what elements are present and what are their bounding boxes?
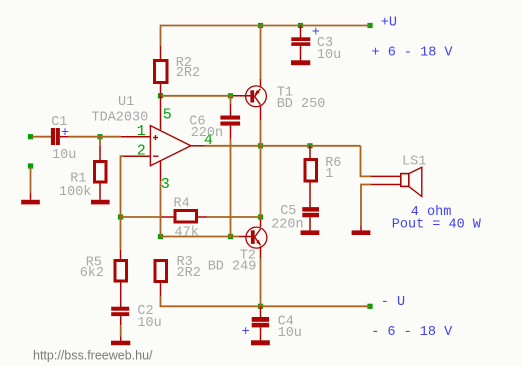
capacitor C3 [291, 25, 341, 62]
node +U endpoint [367, 23, 372, 28]
svg-text:100k: 100k [59, 185, 91, 200]
wire C2 to gnd [120, 316, 122, 341]
svg-text:U1: U1 [118, 95, 134, 110]
svg-text:220n: 220n [191, 126, 223, 141]
wire R6 to C5 [309, 182, 311, 207]
wire R4 right [198, 216, 261, 218]
wire R5 to C2 [120, 281, 122, 307]
wire output to speaker top [361, 146, 401, 177]
resistor R1 [59, 162, 106, 201]
node R1 junction [97, 134, 102, 139]
ground input [21, 200, 40, 205]
wire input gnd [30, 167, 32, 200]
pin 2 [124, 142, 150, 159]
svg-text:10u: 10u [52, 148, 76, 163]
svg-text:220n: 220n [271, 218, 303, 233]
wire C4 to gnd [260, 327, 262, 340]
node output/T1 junction [258, 143, 263, 148]
wire base net rail [161, 95, 251, 97]
wire R3 bottom to rail [161, 283, 371, 306]
svg-text:2: 2 [137, 142, 146, 159]
wire R1 bottom [99, 183, 101, 200]
blue label +6-18V [372, 45, 454, 60]
svg-text:- U: - U [381, 295, 405, 310]
resistor R4 [174, 196, 199, 240]
blue label 4 ohm [411, 205, 452, 220]
pin 5 [161, 96, 172, 130]
blue label -6-18V [371, 325, 453, 340]
capacitor C5 [271, 204, 319, 233]
capacitor C4 [242, 314, 302, 341]
wire T2 emitter down [260, 246, 262, 306]
wire pin3 column [160, 181, 162, 237]
node C6/47k junction [228, 234, 233, 239]
svg-text:2R2: 2R2 [176, 66, 200, 81]
blue label Pout [392, 218, 482, 233]
svg-text:+U: +U [381, 16, 397, 31]
svg-text:Pout = 40 W: Pout = 40 W [392, 218, 482, 233]
wire T1 collector down [260, 106, 262, 146]
blue label -U [381, 295, 405, 310]
wire pin2 feedback [121, 156, 125, 260]
svg-text:R1: R1 [70, 171, 86, 186]
wire T1 emitter to +U rail [260, 26, 262, 88]
svg-text:LS1: LS1 [402, 154, 426, 169]
wire C1 to pin1 [60, 136, 121, 138]
capacitor C2 [111, 304, 162, 331]
transistor T1 BD 250 [246, 85, 326, 112]
svg-text:BD 250: BD 250 [277, 97, 326, 112]
wire C5 to gnd [309, 217, 311, 230]
wire T1 base pin [240, 95, 251, 97]
url [33, 349, 153, 363]
ground C3 [291, 60, 310, 65]
ground R1 [91, 200, 110, 205]
node C4/-U junction [258, 304, 263, 309]
transistor T2 BD 249 [208, 227, 267, 274]
wire C4 top pin [260, 306, 262, 317]
svg-text:10u: 10u [317, 48, 341, 63]
wire top +U rail [161, 25, 371, 27]
svg-text:47k: 47k [175, 225, 199, 240]
svg-text:C5: C5 [280, 204, 296, 219]
capacitor C1 [51, 115, 76, 163]
svg-text:+: + [242, 325, 250, 340]
svg-text:1: 1 [325, 167, 333, 182]
node C6/base junction [228, 93, 233, 98]
wire input to C1 [32, 136, 51, 138]
wire C3 bottom to gnd [300, 46, 302, 61]
pin 1 [121, 123, 150, 140]
node T1/+U junction [258, 23, 263, 28]
svg-text:3: 3 [161, 176, 170, 193]
svg-text:10u: 10u [278, 326, 302, 341]
ground C5 [301, 230, 320, 235]
ground C2 [111, 341, 130, 346]
wire R4 left [121, 216, 175, 218]
ground C4 [251, 340, 270, 345]
node pin5/R2 junction [158, 93, 163, 98]
svg-text:+: + [61, 126, 69, 141]
wire R2 bottom pin [160, 84, 162, 96]
node C3/+U junction [298, 23, 303, 28]
pin 3 [161, 161, 170, 193]
svg-text:+: + [312, 25, 320, 40]
svg-text:http://bss.freeweb.hu/: http://bss.freeweb.hu/ [33, 349, 153, 363]
resistor R6 [305, 146, 341, 182]
wire R2 top column [160, 25, 162, 60]
node -U endpoint [367, 304, 372, 309]
speaker LS1 [401, 154, 427, 196]
wire C6 bottom column [230, 126, 232, 237]
node pin3/R3/47k junction [158, 234, 163, 239]
wire output net [205, 145, 361, 147]
resistor R3 [155, 255, 201, 282]
node R4 left junction [118, 214, 123, 219]
capacitor C6 [189, 115, 240, 142]
resistor R2 [155, 56, 201, 83]
wire R1 top [99, 137, 101, 161]
wire output to T2 collector [260, 146, 262, 227]
resistor R5 [80, 255, 127, 281]
svg-text:1: 1 [137, 123, 146, 140]
wire speaker bottom to gnd [361, 185, 401, 231]
node input terminal [28, 134, 33, 139]
svg-text:R4: R4 [174, 196, 190, 211]
svg-text:+ 6 - 18 V: + 6 - 18 V [372, 45, 454, 60]
svg-text:BD 249: BD 249 [208, 259, 257, 274]
svg-text:5: 5 [163, 107, 172, 124]
svg-text:6k2: 6k2 [80, 266, 104, 281]
op-amp U1 TDA2030 [92, 95, 191, 166]
wire 47k line to T2 base [161, 236, 252, 238]
svg-text:- 6 - 18 V: - 6 - 18 V [371, 325, 453, 340]
svg-text:10u: 10u [137, 316, 161, 331]
ground LS1 [352, 230, 371, 235]
pin 4 [191, 132, 213, 149]
svg-text:2R2: 2R2 [177, 266, 201, 281]
blue label +U [381, 16, 397, 31]
node R4/T2 junction [258, 214, 263, 219]
wire C3 top pin [300, 26, 302, 38]
wire C6 top pin [230, 96, 232, 116]
node output/R6 junction [307, 143, 312, 148]
node input gnd terminal [28, 163, 33, 168]
